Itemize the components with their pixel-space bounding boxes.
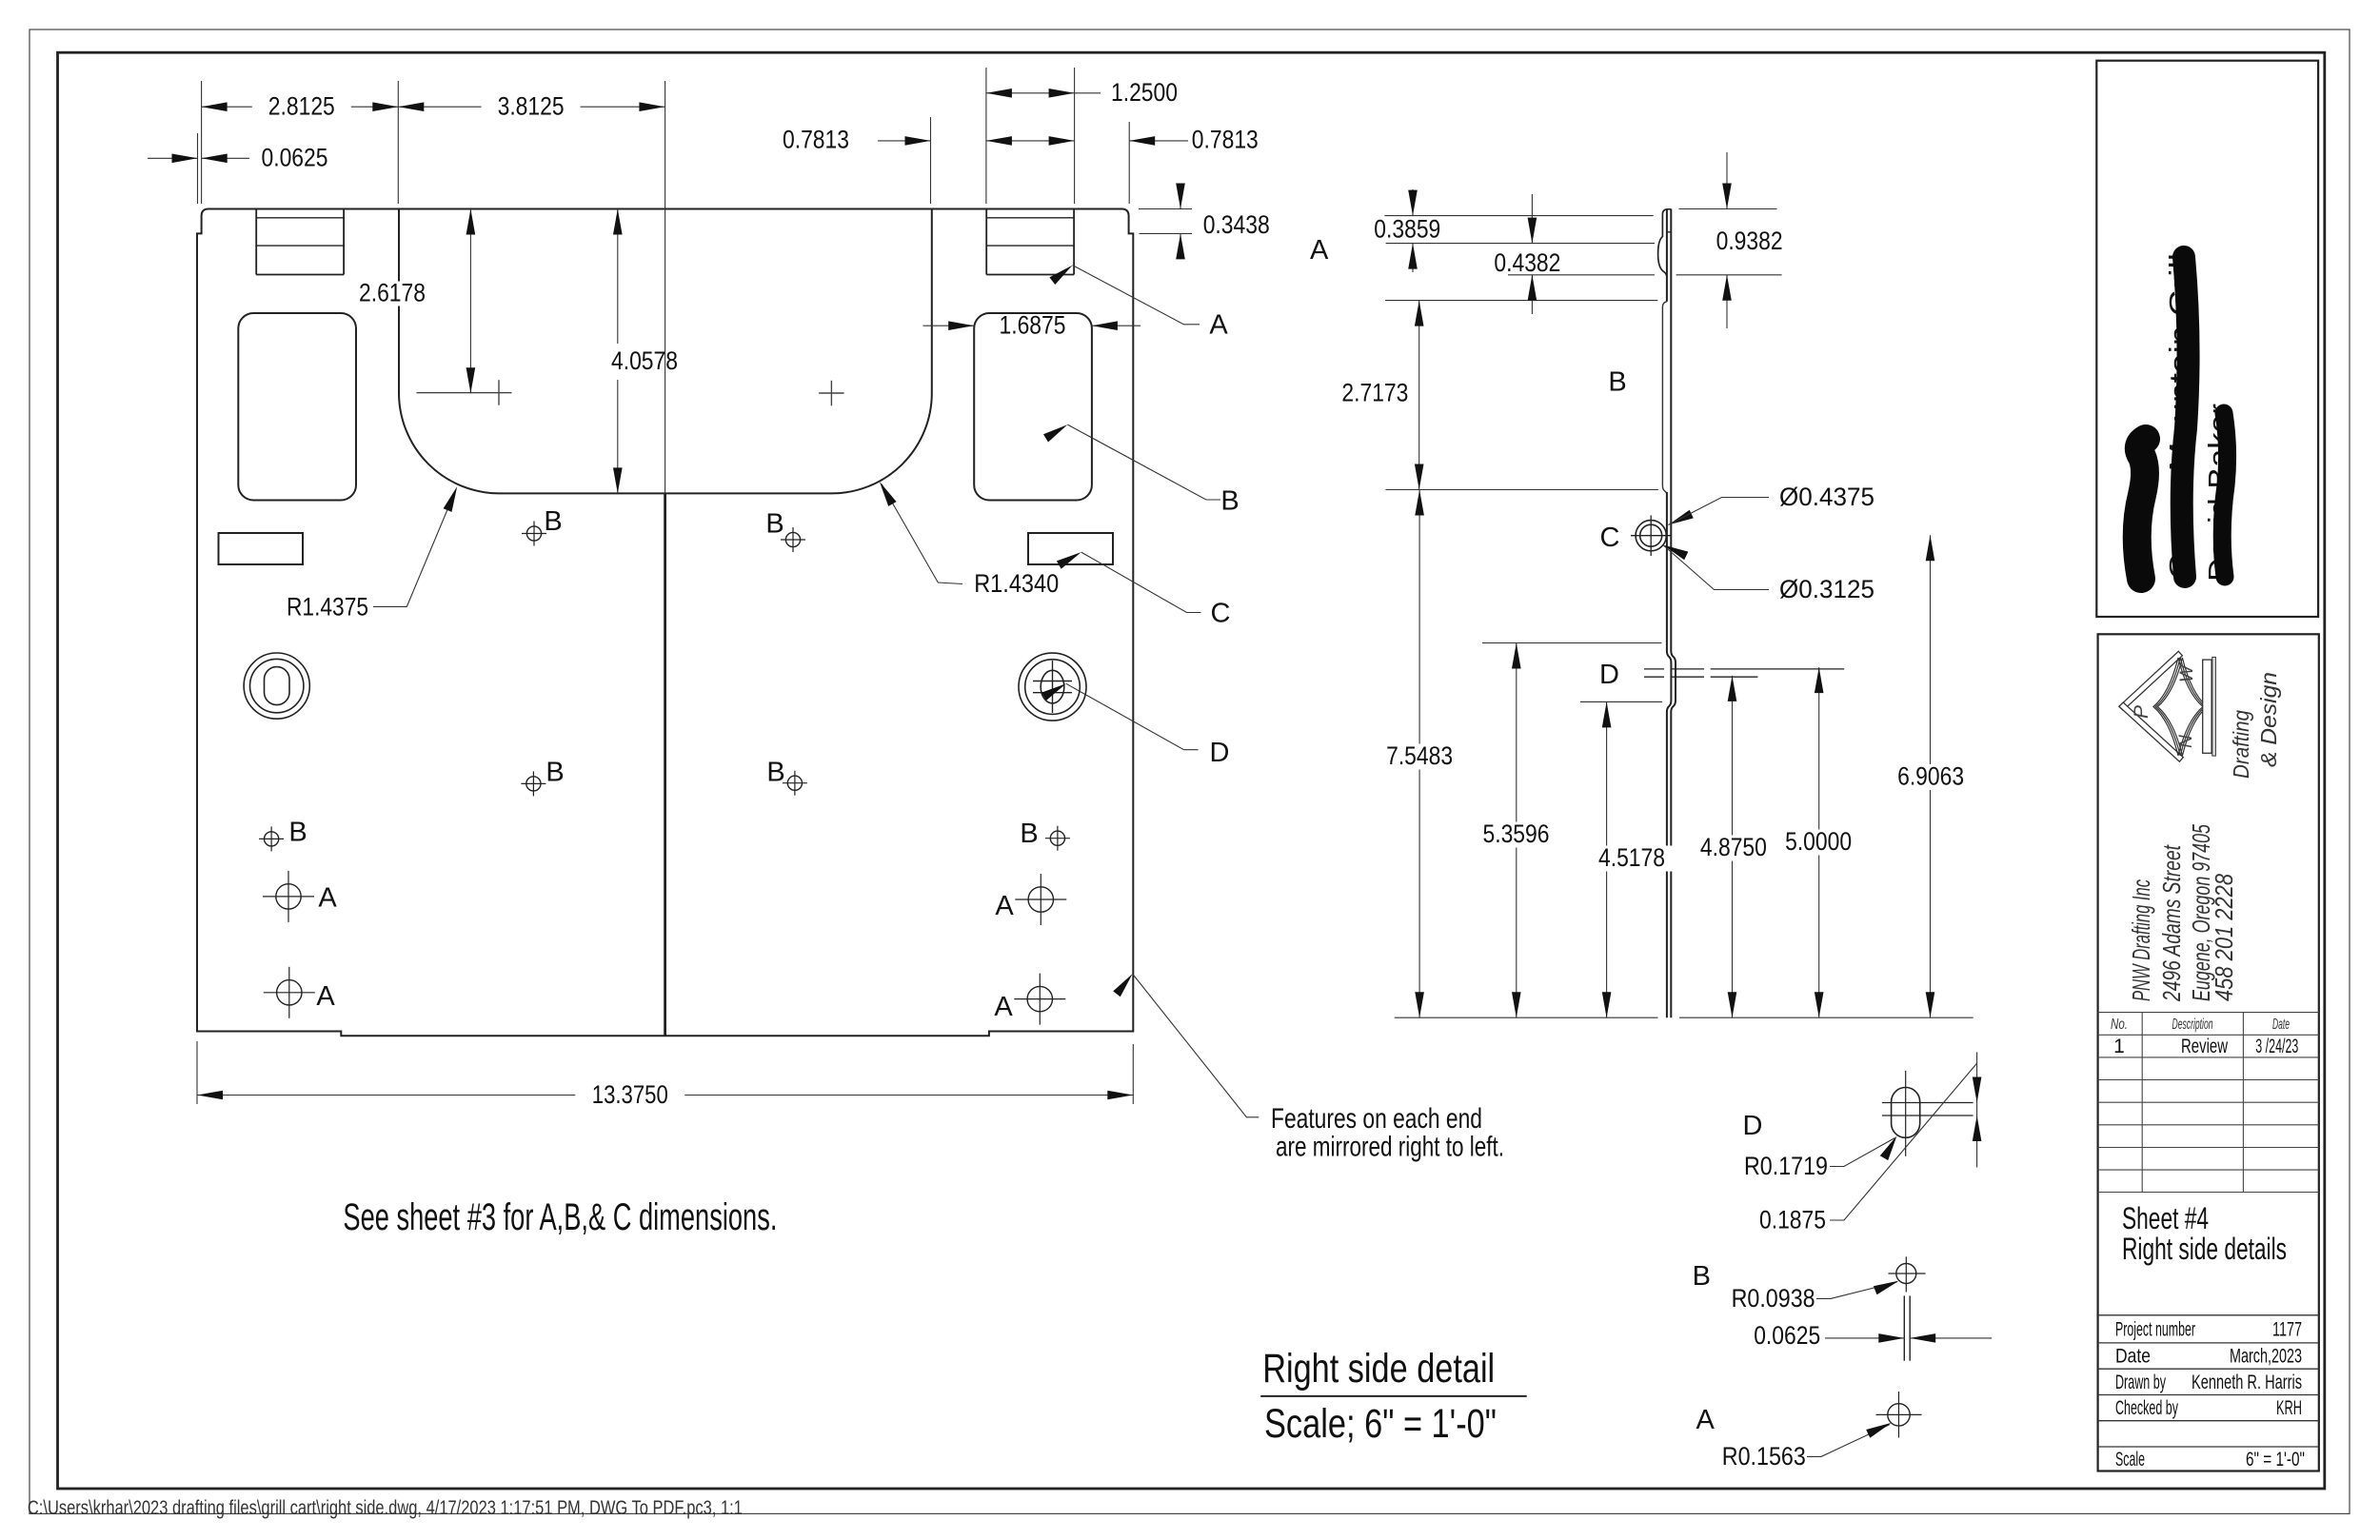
title block box 2 frame bbox=[2098, 634, 2319, 1471]
svg-text:4.5178: 4.5178 bbox=[1598, 843, 1665, 872]
svg-text:& Design: & Design bbox=[2256, 672, 2281, 767]
side view joggle datum dashes upper bbox=[1644, 668, 1844, 670]
dimension 0.7813 right bbox=[1129, 126, 1259, 154]
side ref line y315 bbox=[1385, 300, 1657, 302]
plan right clip tab bbox=[986, 209, 1074, 275]
extension line 0.0625 left bbox=[197, 133, 199, 204]
extension line U cutout left edge bbox=[397, 81, 399, 204]
plan right small rectangular cutout C bbox=[1028, 533, 1113, 564]
svg-text:No.: No. bbox=[2111, 1017, 2128, 1033]
extension line U cutout right edge bbox=[930, 117, 932, 204]
side ref line y675 bbox=[1482, 642, 1662, 644]
side view sheet top cap bbox=[1667, 208, 1671, 210]
svg-text:W: W bbox=[2177, 663, 2197, 682]
extension line right tab left edge bbox=[985, 68, 987, 204]
svg-text:B: B bbox=[765, 508, 783, 539]
date row bbox=[2115, 1346, 2302, 1368]
svg-text:R0.1719: R0.1719 bbox=[1744, 1152, 1828, 1180]
leader label A (clip tab) bbox=[1049, 266, 1228, 341]
svg-text:Scale: Scale bbox=[2115, 1449, 2145, 1471]
svg-text:A: A bbox=[316, 981, 335, 1012]
plan right rounded-rect cutout B bbox=[974, 313, 1092, 501]
svg-text:1.6875: 1.6875 bbox=[1000, 311, 1066, 340]
svg-text:2.7173: 2.7173 bbox=[1341, 379, 1408, 407]
svg-text:0.7813: 0.7813 bbox=[1192, 126, 1259, 154]
dimension 6.9063 bbox=[1881, 535, 1980, 1017]
svg-text:Date: Date bbox=[2272, 1017, 2290, 1033]
svg-text:5.3596: 5.3596 bbox=[1483, 819, 1550, 848]
svg-text:March,2023: March,2023 bbox=[2230, 1346, 2302, 1368]
leader label B (rounded cutout) bbox=[1043, 424, 1240, 516]
svg-text:PNW Drafting Inc: PNW Drafting Inc bbox=[2127, 879, 2155, 1001]
plan B datum marker 4 bbox=[766, 758, 807, 796]
plan A datum marker 4 bbox=[994, 974, 1065, 1025]
svg-text:0.3438: 0.3438 bbox=[1203, 210, 1270, 239]
black marker scribble 3 bbox=[2222, 413, 2227, 577]
side view sheet left edge middle bbox=[1667, 492, 1672, 1017]
svg-text:Date: Date bbox=[2115, 1346, 2151, 1368]
svg-text:R1.4340: R1.4340 bbox=[974, 569, 1059, 598]
blacked-out customer text 3 bbox=[2202, 404, 2235, 582]
PNW logo emblem bbox=[2119, 651, 2216, 761]
dimension 0.7813 left bbox=[783, 126, 1075, 154]
svg-text:A: A bbox=[1209, 310, 1228, 341]
leader R0.1563 bbox=[1722, 1423, 1892, 1471]
detail B label bbox=[1693, 1261, 1711, 1292]
logo text drafting and design bbox=[2229, 672, 2281, 779]
plan left rounded-rect cutout B bbox=[238, 313, 356, 501]
black marker scribble 1 bbox=[2137, 439, 2146, 579]
note see sheet 3 bbox=[343, 1196, 777, 1238]
detail D label bbox=[1743, 1111, 1763, 1141]
svg-text:1177: 1177 bbox=[2272, 1319, 2302, 1341]
dimension 5.3596 bbox=[1467, 643, 1566, 1018]
address street bbox=[2157, 844, 2186, 1002]
right fillet center mark bbox=[819, 381, 843, 406]
side ref line y255 bbox=[1386, 243, 1655, 245]
svg-text:Ø0.3125: Ø0.3125 bbox=[1779, 575, 1874, 603]
svg-text:1.2500: 1.2500 bbox=[1111, 78, 1178, 107]
plan A datum marker 3 bbox=[995, 874, 1066, 925]
revision table grid bbox=[2098, 1013, 2319, 1193]
svg-text:A: A bbox=[995, 891, 1014, 921]
svg-text:A: A bbox=[994, 992, 1013, 1022]
side ref line y737 bbox=[1580, 701, 1662, 702]
svg-text:C:\Users\krhar\2023 drafting f: C:\Users\krhar\2023 drafting files\grill… bbox=[28, 1497, 743, 1519]
svg-text:B: B bbox=[545, 758, 564, 788]
sheet number block bbox=[2122, 1201, 2287, 1266]
side view label D bbox=[1599, 660, 1619, 690]
svg-text:0.1875: 0.1875 bbox=[1759, 1206, 1826, 1234]
revision row 1 no bbox=[2113, 1036, 2125, 1057]
detail D slot bbox=[1882, 1071, 1973, 1156]
revision table header description bbox=[2172, 1017, 2213, 1033]
svg-text:0.0625: 0.0625 bbox=[262, 144, 328, 172]
address PNW Drafting Inc bbox=[2127, 879, 2155, 1001]
scale row bbox=[2115, 1449, 2305, 1471]
side ref line y226 bbox=[1384, 215, 1653, 217]
svg-text:1: 1 bbox=[2113, 1036, 2125, 1057]
leader R0.1719 bbox=[1744, 1135, 1897, 1180]
svg-text:R0.0938: R0.0938 bbox=[1732, 1284, 1815, 1313]
plan B datum marker 2 bbox=[765, 508, 805, 552]
plan A datum marker 1 bbox=[263, 871, 337, 922]
leader R0.0938 bbox=[1732, 1281, 1899, 1313]
svg-text:B: B bbox=[766, 758, 784, 788]
dimension 0.9382 bbox=[1716, 152, 1783, 328]
plot file path text bbox=[28, 1497, 743, 1519]
svg-text:Checked by: Checked by bbox=[2115, 1397, 2178, 1419]
svg-text:3 /24/23: 3 /24/23 bbox=[2255, 1036, 2298, 1057]
svg-text:B: B bbox=[1693, 1261, 1711, 1292]
dimension 7.5483 bbox=[1370, 490, 1469, 1018]
address city bbox=[2187, 824, 2215, 1001]
svg-text:0.0625: 0.0625 bbox=[1754, 1321, 1820, 1350]
detail A label bbox=[1696, 1405, 1716, 1435]
side view hole C bbox=[1600, 516, 1672, 557]
plan B datum marker 6 bbox=[1020, 819, 1070, 851]
dimension 0.0625 detail B bbox=[1754, 1321, 1992, 1350]
svg-text:7.5483: 7.5483 bbox=[1386, 741, 1453, 770]
svg-text:Drawn by: Drawn by bbox=[2115, 1372, 2166, 1393]
svg-text:C: C bbox=[1600, 523, 1620, 553]
svg-text:Kenneth R. Harris: Kenneth R. Harris bbox=[2192, 1372, 2302, 1393]
svg-text:B: B bbox=[1608, 367, 1626, 398]
svg-text:D: D bbox=[1743, 1111, 1763, 1141]
plan B datum marker 1 bbox=[522, 506, 563, 546]
leader R1.4340 fillet radius bbox=[880, 482, 1059, 598]
svg-text:C: C bbox=[1211, 599, 1231, 629]
side view bottom reference line bbox=[1395, 1017, 1973, 1018]
svg-text:R1.4375: R1.4375 bbox=[287, 593, 368, 622]
extension line right tab right edge bbox=[1074, 68, 1076, 204]
side ref line y514 bbox=[1386, 489, 1658, 491]
blacked-out customer text 1 bbox=[2121, 445, 2154, 588]
svg-text:R0.1563: R0.1563 bbox=[1722, 1442, 1806, 1471]
svg-text:Scale; 6" = 1'-0": Scale; 6" = 1'-0" bbox=[1264, 1401, 1497, 1447]
svg-text:Review: Review bbox=[2181, 1036, 2229, 1057]
svg-text:0.4382: 0.4382 bbox=[1494, 248, 1560, 277]
project info grid bbox=[2098, 1315, 2319, 1447]
dimension 4.0578 bbox=[611, 209, 678, 494]
leader diameter 0.3125 bbox=[1663, 545, 1874, 604]
revision row 1 date bbox=[2255, 1036, 2298, 1057]
side view label B bbox=[1608, 367, 1626, 398]
extension line part right top edge bbox=[1128, 122, 1130, 204]
side ref line y288 bbox=[1508, 274, 1655, 276]
view title right side detail bbox=[1260, 1346, 1527, 1447]
svg-text:4.8750: 4.8750 bbox=[1700, 833, 1767, 861]
plan U-shaped cutout bbox=[399, 209, 932, 494]
svg-text:3.8125: 3.8125 bbox=[498, 92, 565, 121]
svg-text:Right side details: Right side details bbox=[2122, 1232, 2287, 1266]
revision table header no bbox=[2111, 1017, 2128, 1033]
side ref line right y219 bbox=[1679, 208, 1777, 210]
svg-text:5.0000: 5.0000 bbox=[1785, 827, 1852, 856]
leader label D (keyhole) bbox=[1041, 683, 1229, 768]
svg-text:Project number: Project number bbox=[2115, 1319, 2195, 1341]
side view hem curl bbox=[1658, 209, 1667, 277]
plan A datum marker 2 bbox=[264, 967, 336, 1018]
detail A corner radius bbox=[1876, 1392, 1922, 1438]
leader diameter 0.4375 bbox=[1668, 483, 1874, 525]
svg-text:0.9382: 0.9382 bbox=[1716, 227, 1783, 255]
svg-text:A: A bbox=[1310, 235, 1329, 266]
dimension 0.3438 bbox=[1139, 184, 1270, 260]
fillet center datum line bbox=[417, 392, 512, 394]
svg-text:6.9063: 6.9063 bbox=[1897, 762, 1964, 791]
svg-text:2496 Adams Street: 2496 Adams Street bbox=[2157, 844, 2186, 1002]
dimension 1.6875 bbox=[923, 311, 1141, 340]
plan centerline (mirror line) bbox=[664, 81, 666, 1036]
drawn by row bbox=[2115, 1372, 2302, 1393]
dimension 1.2500 bbox=[986, 78, 1178, 107]
side view joggle datum dashes lower bbox=[1644, 676, 1757, 678]
checked by row bbox=[2115, 1397, 2302, 1419]
svg-text:B: B bbox=[544, 506, 562, 537]
plan right keyhole feature D bbox=[1019, 653, 1086, 721]
left fillet center mark bbox=[498, 380, 500, 405]
svg-text:458 201 2228: 458 201 2228 bbox=[2210, 874, 2238, 1001]
svg-text:See sheet #3 for A,B,& C dimen: See sheet #3 for A,B,& C dimensions. bbox=[343, 1196, 777, 1238]
plan left keyhole feature bbox=[244, 653, 309, 719]
side view hem lip edge tick bbox=[1667, 231, 1671, 233]
svg-text:B: B bbox=[288, 818, 307, 848]
plan B datum marker 5 bbox=[259, 818, 307, 852]
dimension 2.8125 bbox=[202, 92, 399, 121]
svg-text:2.6178: 2.6178 bbox=[359, 279, 426, 307]
dimension 2.6178 bbox=[352, 209, 475, 394]
dimension 0.4382 bbox=[1494, 194, 1560, 314]
plan left clip tab bbox=[256, 209, 344, 275]
svg-text:Features on each end: Features on each end bbox=[1271, 1103, 1482, 1135]
svg-text:0.3859: 0.3859 bbox=[1374, 215, 1440, 244]
svg-text:2.8125: 2.8125 bbox=[268, 92, 335, 121]
svg-text:A: A bbox=[1696, 1405, 1716, 1435]
dimension 0.1875 detail D bbox=[1759, 1052, 1981, 1234]
svg-text:13.3750: 13.3750 bbox=[592, 1080, 668, 1109]
revision row 1 description bbox=[2181, 1036, 2229, 1057]
svg-text:B: B bbox=[1220, 486, 1239, 517]
revision table header date bbox=[2272, 1017, 2290, 1033]
extension line top-left corner bbox=[201, 81, 203, 204]
svg-text:KRH: KRH bbox=[2276, 1397, 2302, 1419]
project number row bbox=[2115, 1319, 2302, 1341]
dimension 3.8125 bbox=[398, 92, 664, 121]
svg-text:N: N bbox=[2176, 735, 2196, 748]
svg-text:6" = 1'-0": 6" = 1'-0" bbox=[2246, 1449, 2305, 1471]
svg-text:D: D bbox=[1210, 738, 1230, 768]
blacked-out customer text 2 bbox=[2163, 253, 2196, 580]
side view sheet left edge upper bbox=[1666, 209, 1668, 302]
side view label A bbox=[1310, 235, 1329, 266]
side ref line right y288 bbox=[1676, 274, 1782, 276]
black marker scribble 2 bbox=[2182, 257, 2189, 577]
svg-text:Right side detail: Right side detail bbox=[1262, 1346, 1495, 1392]
svg-text:Description: Description bbox=[2172, 1017, 2213, 1033]
svg-text:0.7813: 0.7813 bbox=[783, 126, 849, 154]
plan B datum marker 3 bbox=[521, 758, 564, 797]
svg-text:are mirrored right to left.: are mirrored right to left. bbox=[1276, 1132, 1504, 1163]
dimension 13.3750 bbox=[197, 1041, 1133, 1109]
leader note features mirrored bbox=[1113, 974, 1504, 1162]
dimension 0.0625 top-left bbox=[148, 144, 328, 172]
svg-text:D: D bbox=[1599, 660, 1619, 690]
address phone bbox=[2210, 874, 2238, 1001]
svg-text:P: P bbox=[2131, 705, 2152, 719]
svg-text:4.0578: 4.0578 bbox=[611, 346, 678, 375]
detail B edge radius bbox=[1889, 1256, 1926, 1360]
svg-text:A: A bbox=[318, 883, 337, 914]
plan view part outline bbox=[197, 209, 1133, 1037]
title block box 1 (customer, blacked out) bbox=[2096, 61, 2318, 617]
dimension 2.7173 bbox=[1341, 301, 1423, 490]
svg-text:Drafting: Drafting bbox=[2229, 710, 2253, 779]
leader label C (small rect cutout) bbox=[1057, 552, 1231, 628]
svg-text:B: B bbox=[1020, 819, 1038, 849]
leader R1.4375 fillet radius bbox=[287, 486, 457, 621]
dimension 4.8750 bbox=[1684, 676, 1783, 1017]
svg-text:Sheet #4: Sheet #4 bbox=[2122, 1201, 2209, 1235]
dimension 5.0000 bbox=[1769, 667, 1868, 1017]
dimension 4.5178 bbox=[1582, 701, 1681, 1017]
side view doubled-layer face bbox=[1662, 302, 1667, 495]
plan left small rectangular cutout C bbox=[219, 533, 304, 564]
side view sheet right edge bbox=[1671, 209, 1676, 1018]
dimension 0.3859 bbox=[1374, 189, 1440, 272]
svg-text:Ø0.4375: Ø0.4375 bbox=[1779, 483, 1874, 511]
